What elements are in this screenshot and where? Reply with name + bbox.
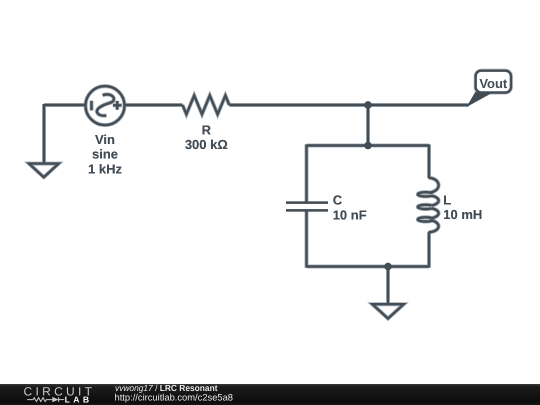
- svg-text:LAB: LAB: [65, 395, 93, 405]
- wire: [367, 105, 369, 146]
- footer text: [115, 383, 234, 403]
- svg-text:L: L: [443, 193, 451, 208]
- node junction: [384, 263, 391, 270]
- node junction: [364, 142, 371, 149]
- wire: [44, 104, 86, 106]
- net flag Vout: [468, 71, 511, 106]
- label L value: [443, 193, 482, 223]
- svg-text:300 kΩ: 300 kΩ: [185, 137, 228, 152]
- inductor L: [418, 178, 439, 232]
- CircuitLab logo: [24, 385, 96, 405]
- svg-text:sine: sine: [92, 147, 118, 162]
- wire: [229, 104, 468, 106]
- wire: [305, 211, 307, 268]
- wire: [307, 265, 430, 267]
- label Vin value: [88, 132, 122, 176]
- wire: [428, 232, 430, 267]
- node junction: [364, 101, 371, 108]
- svg-text:R: R: [202, 122, 212, 137]
- wire: [307, 144, 430, 146]
- svg-text:C: C: [333, 193, 343, 208]
- svg-text:1 kHz: 1 kHz: [88, 161, 122, 176]
- svg-text:10 mH: 10 mH: [443, 207, 482, 222]
- ground: [29, 164, 59, 178]
- voltage source V1: [86, 86, 125, 125]
- label C value: [333, 193, 367, 223]
- wire: [126, 104, 183, 106]
- svg-text:10 nF: 10 nF: [333, 208, 367, 223]
- wire: [428, 144, 430, 178]
- capacitor C: [286, 203, 328, 211]
- wire: [387, 267, 389, 304]
- ground: [372, 304, 403, 318]
- footer bar: [0, 384, 540, 405]
- label R value: [185, 122, 228, 152]
- wire: [305, 144, 307, 202]
- svg-text:Vin: Vin: [95, 132, 115, 147]
- wire: [43, 104, 45, 164]
- svg-text:http://circuitlab.com/c2se5a8: http://circuitlab.com/c2se5a8: [115, 392, 234, 403]
- resistor R: [183, 96, 230, 115]
- svg-text:Vout: Vout: [479, 76, 508, 91]
